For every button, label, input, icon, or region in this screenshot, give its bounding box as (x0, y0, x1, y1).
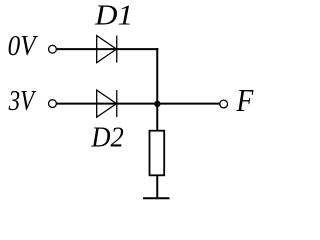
wire (57, 103, 220, 105)
terminal input 2 (49, 100, 57, 108)
resistor R (150, 131, 165, 176)
junction node (154, 101, 160, 107)
diode D1 (97, 36, 117, 63)
svg-text:0V: 0V (8, 30, 39, 62)
ground (143, 197, 170, 199)
svg-text:D1: D1 (94, 0, 133, 32)
terminal input 1 (49, 45, 57, 53)
svg-text:F: F (236, 82, 254, 118)
wire (156, 104, 158, 131)
svg-text:D2: D2 (90, 122, 123, 154)
wire (156, 176, 158, 199)
terminal output F (220, 100, 228, 108)
diode D2 (97, 90, 117, 117)
svg-text:3V: 3V (8, 85, 37, 117)
wire (156, 48, 158, 104)
wire (57, 48, 159, 50)
